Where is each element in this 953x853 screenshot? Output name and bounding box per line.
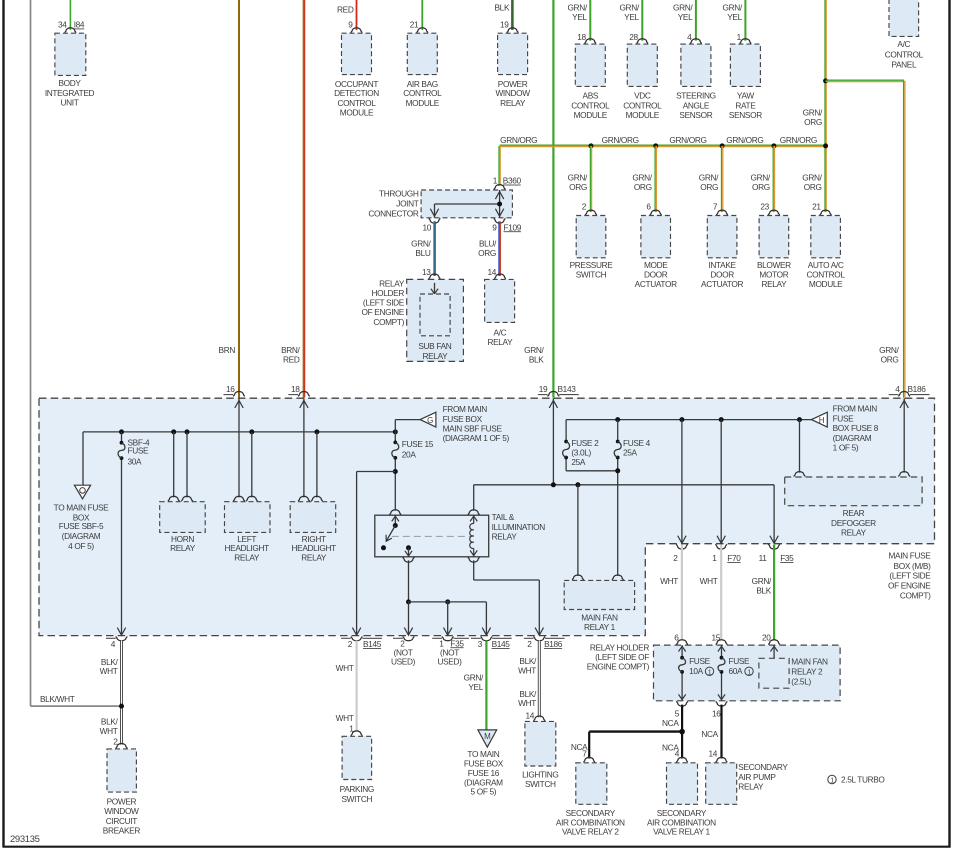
- svg-text:FUSE: FUSE: [128, 446, 150, 456]
- pin 2 breaker: [113, 737, 118, 747]
- svg-text:1: 1: [830, 778, 834, 785]
- svg-text:4: 4: [111, 639, 116, 649]
- junction dot F70-2: [679, 417, 684, 422]
- svg-text:CIRCUIT: CIRCUIT: [106, 816, 137, 826]
- svg-text:15: 15: [711, 632, 720, 642]
- pin 13: [422, 267, 431, 277]
- fuse SBF-4 30A: [118, 441, 125, 460]
- svg-text:USED): USED): [437, 657, 462, 667]
- pin 1 YAW: [737, 32, 742, 42]
- wire label GRN/ORG PRESSURE: [568, 173, 588, 192]
- pin 1 parking: [349, 723, 354, 733]
- sec air valve relay 1 label: [647, 808, 716, 837]
- svg-text:I84: I84: [74, 20, 85, 30]
- svg-text:18: 18: [291, 384, 300, 394]
- svg-text:RELAY: RELAY: [301, 552, 327, 562]
- left headlight relay label: [225, 534, 270, 562]
- connector bump pin 9 F109: [494, 218, 506, 223]
- svg-text:ENGINE COMPT): ENGINE COMPT): [587, 661, 650, 671]
- connector bump breaker: [116, 743, 128, 748]
- main fan relay 1 box: [564, 580, 634, 609]
- connector B186: [908, 384, 927, 394]
- connector bump sec1: [676, 757, 688, 762]
- svg-text:1: 1: [493, 176, 498, 186]
- svg-text:MAIN SBF FUSE: MAIN SBF FUSE: [443, 424, 503, 434]
- svg-text:A/C: A/C: [494, 328, 507, 338]
- wire GRN/ORG B186 vertical: [904, 81, 905, 398]
- connector bump PRESSURE: [585, 210, 597, 215]
- connector bump pin 16: [224, 392, 245, 397]
- wire label NCA b: [662, 742, 679, 752]
- wire drop F35 pin11: [770, 485, 778, 544]
- svg-text:RELAY: RELAY: [500, 98, 526, 108]
- svg-text:6: 6: [646, 201, 651, 211]
- main fan relay 2 box: [759, 658, 789, 688]
- junction dot main fan left: [575, 482, 580, 487]
- wire label BLU/ORG: [478, 239, 497, 258]
- svg-text:BREAKER: BREAKER: [103, 826, 141, 836]
- wire label GRN/ORG upper: [803, 108, 823, 127]
- pin 10: [422, 222, 431, 232]
- svg-text:5: 5: [675, 709, 680, 719]
- junction dot bus 23: [771, 143, 776, 148]
- svg-text:5 OF 5): 5 OF 5): [471, 786, 497, 796]
- lighting switch box: [525, 721, 556, 766]
- svg-text:2: 2: [673, 553, 678, 563]
- svg-text:CONTROL: CONTROL: [337, 98, 376, 108]
- pin 4 B186: [895, 384, 900, 394]
- svg-text:CONTROL: CONTROL: [403, 88, 442, 98]
- svg-text:DOOR: DOOR: [710, 270, 734, 280]
- wire label GRN/YEL VDC: [619, 3, 639, 22]
- connector bump LH left: [233, 496, 245, 501]
- svg-text:YEL: YEL: [572, 12, 587, 22]
- svg-text:ORG: ORG: [700, 182, 718, 192]
- junction dot SBF-4: [119, 429, 124, 434]
- svg-text:NCA: NCA: [701, 729, 718, 739]
- connector bump 1 F35: [432, 637, 469, 641]
- svg-text:LIGHTING: LIGHTING: [522, 769, 558, 779]
- wire BLU/ORG: [499, 221, 500, 276]
- junction dot fuse15 bottom: [393, 469, 398, 474]
- wire label BLK/WHT horizontal: [40, 694, 75, 704]
- svg-text:BLK: BLK: [756, 586, 771, 596]
- svg-text:FUSE BOX: FUSE BOX: [464, 758, 504, 768]
- svg-text:FUSE 15: FUSE 15: [402, 439, 434, 449]
- connector bump notch 2: [676, 544, 688, 549]
- svg-text:(LEFT SIDE: (LEFT SIDE: [363, 298, 405, 308]
- wire defogger left: [799, 420, 801, 473]
- connector F35 bottom: [450, 638, 464, 648]
- rear defogger relay label: [831, 508, 876, 537]
- secondary air combination valve relay 2 box: [576, 763, 607, 805]
- power window circuit breaker box: [107, 749, 136, 792]
- pin 5: [675, 709, 680, 719]
- svg-text:SUB FAN: SUB FAN: [418, 341, 451, 351]
- label not used 1: [391, 647, 416, 666]
- connector bump tail out: [403, 557, 415, 562]
- svg-text:FUSE: FUSE: [833, 413, 855, 423]
- svg-text:MODULE: MODULE: [626, 110, 660, 120]
- wire GRN/ORG drop to B360: [499, 146, 500, 186]
- connector bump BLOWER: [768, 210, 780, 215]
- svg-text:ANGLE: ANGLE: [683, 100, 710, 110]
- pin 2 B186 bottom: [527, 639, 532, 649]
- svg-text:AIR PUMP: AIR PUMP: [738, 772, 776, 782]
- wire GRN/ORG drop BLOWER: [773, 146, 774, 212]
- svg-text:BLU: BLU: [415, 248, 430, 258]
- svg-text:HOLDER: HOLDER: [372, 288, 405, 298]
- wire tail out branch: [404, 560, 490, 635]
- pin 7 NCA: [582, 748, 587, 758]
- svg-text:YEL: YEL: [468, 682, 483, 692]
- svg-text:MODULE: MODULE: [574, 110, 608, 120]
- svg-text:ABS: ABS: [583, 91, 599, 101]
- svg-text:POWER: POWER: [107, 796, 137, 806]
- connector B186 bottom: [544, 639, 563, 649]
- bus labels GRN/ORG: [500, 135, 817, 145]
- connector B360: [503, 176, 522, 186]
- svg-text:DOOR: DOOR: [644, 270, 668, 280]
- wire label WHT 1: [700, 576, 718, 586]
- svg-text:MODULE: MODULE: [809, 279, 843, 289]
- right headlight relay label: [292, 534, 337, 562]
- wire GRN/ORG jog to B186 drop: [826, 80, 905, 81]
- main fan relay 1 label: [581, 613, 618, 633]
- through joint connector box: [421, 190, 512, 218]
- horn relay label: [170, 534, 196, 553]
- through joint internal wire: [430, 190, 504, 218]
- connector bump LH right: [246, 496, 258, 501]
- wire GRN/BLK F35: [773, 545, 775, 641]
- sub fan relay box: [420, 294, 450, 336]
- svg-text:TO MAIN FUSE: TO MAIN FUSE: [54, 503, 109, 513]
- pin 9: [348, 20, 353, 30]
- wire bus to triangle O: [82, 432, 84, 485]
- svg-text:GRN/ORG: GRN/ORG: [500, 135, 537, 145]
- connector B145 (fuse16): [492, 639, 511, 649]
- svg-text:RELAY: RELAY: [738, 782, 764, 792]
- connector bump rh16: [716, 701, 728, 706]
- wire GRN/YEL to YAW: [744, 0, 746, 41]
- connector bump sec2: [583, 757, 595, 762]
- bus wire 1: [83, 431, 395, 433]
- svg-text:MODE: MODE: [644, 260, 668, 270]
- right headlight relay box: [290, 502, 336, 533]
- AUTO A/C CONTROL MODULE box: [811, 216, 841, 258]
- svg-text:USED): USED): [391, 657, 416, 667]
- main fuse box label: [888, 551, 931, 601]
- connector bump tail coil top: [468, 510, 480, 515]
- wire GRN/YEL to VDC: [641, 0, 643, 41]
- air bag control module label: [403, 79, 442, 108]
- connector bump main fan R: [612, 575, 624, 580]
- svg-text:VDC: VDC: [634, 91, 651, 101]
- svg-text:14: 14: [525, 710, 534, 720]
- svg-text:B186: B186: [908, 384, 927, 394]
- label not used 2: [437, 647, 462, 666]
- svg-text:RED: RED: [283, 355, 300, 365]
- tail relay coil: [470, 515, 478, 557]
- svg-text:SWITCH: SWITCH: [576, 270, 607, 280]
- wire label GRN/BLK F35: [752, 576, 772, 595]
- wire fuse4 drop: [617, 420, 619, 576]
- svg-text:CONTROL: CONTROL: [571, 100, 610, 110]
- svg-text:ORG: ORG: [752, 182, 770, 192]
- junction dot F70-1: [719, 417, 724, 422]
- svg-text:RELAY: RELAY: [487, 337, 513, 347]
- connector bump ABS: [584, 39, 596, 44]
- wire NCA branch 7: [589, 732, 682, 759]
- wire label BRN/RED: [281, 345, 300, 364]
- wire GRN/ORG bus: [500, 145, 826, 146]
- wire WHT 1: [720, 545, 722, 641]
- svg-text:3: 3: [478, 639, 483, 649]
- svg-text:CONTROL: CONTROL: [623, 100, 662, 110]
- body integrated unit U-BIU: [55, 33, 86, 75]
- wire WHT 2: [681, 545, 683, 641]
- wire BLK to power window relay: [512, 0, 513, 30]
- connector F70: [727, 553, 741, 563]
- pin 7 INTAKE: [713, 201, 718, 211]
- svg-text:COMPT): COMPT): [373, 317, 404, 327]
- svg-text:MOTOR: MOTOR: [759, 270, 788, 280]
- wire label BLK/WHT lighting 2: [518, 689, 537, 708]
- VDC CONTROL MODULE box: [627, 44, 657, 86]
- wire GRN to body integrated unit: [69, 0, 71, 30]
- fuse FUSE2 25A: [563, 440, 570, 460]
- connector bump pin 13: [429, 274, 441, 279]
- flow arrow G (from main SBF fuse): [420, 412, 436, 427]
- svg-text:21: 21: [812, 201, 821, 211]
- connector bump horn left: [168, 496, 180, 501]
- connector bump 2 B145 bottom: [341, 637, 382, 641]
- tail relay label: [492, 512, 546, 542]
- pin 28 VDC: [629, 32, 638, 42]
- wire to 2 B145: [352, 472, 395, 636]
- svg-text:FUSE: FUSE: [729, 656, 751, 666]
- svg-text:2.5L TURBO: 2.5L TURBO: [841, 775, 885, 785]
- svg-text:FROM MAIN: FROM MAIN: [833, 404, 878, 414]
- svg-text:18: 18: [577, 32, 586, 42]
- sec air valve relay 2 label: [556, 808, 625, 837]
- connector bump pin 10: [429, 218, 441, 223]
- a/c control panel box: [889, 0, 919, 36]
- tail and illumination relay box: [375, 515, 489, 557]
- BLOWER MOTOR RELAY box: [759, 216, 789, 258]
- connector bump rh 6: [676, 640, 688, 645]
- PRESSURE SWITCH label: [570, 260, 614, 280]
- horn relay box: [160, 502, 206, 533]
- wire label GRN/YEL fuse16: [464, 672, 484, 691]
- connector bump pin 19: [507, 28, 519, 33]
- fuse FUSE 10A: [679, 656, 686, 674]
- wire label GRN/ORG BLOWER: [751, 173, 771, 192]
- triangle M label: [464, 749, 504, 796]
- pin 2 B145 bottom: [348, 639, 353, 649]
- svg-text:ACTUATOR: ACTUATOR: [635, 279, 677, 289]
- wire label GRN/ORG INTAKE: [699, 173, 719, 192]
- svg-text:RELAY: RELAY: [379, 278, 405, 288]
- svg-text:23: 23: [760, 201, 769, 211]
- svg-text:WHT: WHT: [336, 713, 354, 723]
- pin 4 STEERING: [687, 32, 692, 42]
- svg-text:RELAY 1: RELAY 1: [584, 622, 616, 632]
- svg-text:CONNECTOR: CONNECTOR: [368, 209, 419, 219]
- svg-text:FUSE 2: FUSE 2: [571, 438, 599, 448]
- wire fuse2 to fuse4 join: [566, 468, 620, 473]
- connector bump RH left: [298, 496, 310, 501]
- connector bump pin 14: [494, 274, 506, 279]
- wire label NCA a: [662, 718, 679, 728]
- connector bump tail coil bottom: [468, 557, 480, 562]
- svg-text:INTEGRATED: INTEGRATED: [45, 88, 95, 98]
- svg-text:4 OF 5): 4 OF 5): [68, 541, 94, 551]
- svg-text:RATE: RATE: [735, 100, 756, 110]
- pin 6 MODE: [646, 201, 651, 211]
- wire label RED: [337, 5, 354, 15]
- fuse 10A label: [689, 656, 714, 676]
- wire GRN/ORG right vertical: [825, 0, 826, 212]
- connector I84: [74, 20, 85, 30]
- BLOWER MOTOR RELAY label: [757, 260, 791, 289]
- svg-text:BLK/WHT: BLK/WHT: [40, 694, 75, 704]
- wire label NCA d: [701, 729, 718, 739]
- svg-text:4: 4: [675, 748, 680, 758]
- svg-text:ACTUATOR: ACTUATOR: [701, 279, 743, 289]
- svg-text:UNIT: UNIT: [61, 98, 79, 108]
- wire GRN/ORG drop PRESSURE: [590, 146, 591, 212]
- wire label GRN/YEL YAW: [723, 3, 743, 22]
- svg-text:A/C: A/C: [897, 39, 910, 49]
- wire B143 drop: [549, 398, 557, 485]
- a/c relay label: [487, 328, 513, 348]
- connector bump B186: [889, 392, 930, 397]
- wire BLK/WHT breaker: [120, 641, 123, 745]
- wire GRN/ORG drop INTAKE: [722, 146, 723, 212]
- fuse FUSE 60A: [718, 656, 725, 674]
- svg-text:(3.0L): (3.0L): [571, 448, 591, 458]
- svg-text:CONTROL: CONTROL: [885, 50, 924, 60]
- MODE DOOR ACTUATOR box: [641, 216, 671, 258]
- wire label NCA c: [571, 742, 588, 752]
- junction dot A: [823, 78, 828, 83]
- svg-text:(DIAGRAM 1 OF 5): (DIAGRAM 1 OF 5): [443, 433, 510, 443]
- parking switch label: [340, 784, 374, 804]
- triangle O label: [54, 503, 109, 551]
- svg-text:(LEFT SIDE: (LEFT SIDE: [889, 571, 931, 581]
- secondary air combination valve relay 1 box: [667, 763, 698, 805]
- junction dot bus 2: [589, 143, 594, 148]
- svg-text:THROUGH: THROUGH: [379, 189, 419, 199]
- svg-text:STEERING: STEERING: [676, 91, 716, 101]
- svg-text:DETECTION: DETECTION: [334, 88, 379, 98]
- pin 6: [674, 632, 679, 642]
- svg-text:YEL: YEL: [624, 12, 639, 22]
- svg-text:FUSE SBF-5: FUSE SBF-5: [59, 521, 104, 531]
- pin 20: [762, 632, 771, 642]
- power window circuit breaker label: [103, 796, 141, 835]
- svg-text:B145: B145: [492, 639, 511, 649]
- svg-text:INTAKE: INTAKE: [708, 260, 736, 270]
- junction dot horn left: [171, 429, 176, 434]
- connector F35 notch: [780, 553, 794, 563]
- tail relay output contact: [405, 545, 412, 557]
- svg-text:FROM MAIN: FROM MAIN: [443, 404, 488, 414]
- INTAKE DOOR ACTUATOR box: [707, 216, 737, 258]
- svg-text:ORG: ORG: [804, 117, 822, 127]
- connector bump parking: [351, 731, 363, 736]
- svg-text:M: M: [484, 732, 491, 741]
- STEERING ANGLE SENSOR label: [676, 91, 716, 120]
- wire GRN/ORG drop MODE: [655, 146, 656, 212]
- svg-text:BRN: BRN: [219, 345, 236, 355]
- wire label WHT parking 2: [336, 713, 354, 723]
- connector bump B360: [494, 185, 506, 190]
- svg-text:WHT: WHT: [100, 666, 118, 676]
- wire GRN/BLK to B143: [552, 0, 554, 398]
- svg-text:CONTROL: CONTROL: [807, 270, 846, 280]
- svg-text:RELAY: RELAY: [422, 351, 448, 361]
- wire drop F70 pin2: [678, 420, 686, 544]
- svg-text:ORG: ORG: [569, 182, 587, 192]
- pin 2 not used: [400, 638, 405, 648]
- svg-text:ORG: ORG: [478, 248, 496, 258]
- connector bump lighting: [533, 716, 545, 721]
- pin 4 NCA: [675, 748, 680, 758]
- wire BRN: [238, 0, 240, 398]
- connector bump notch 11 F35: [768, 544, 780, 549]
- svg-text:FUSE: FUSE: [689, 656, 711, 666]
- svg-text:GRN/ORG: GRN/ORG: [780, 135, 817, 145]
- fuse FUSE15 20A: [392, 441, 399, 460]
- svg-text:7: 7: [582, 748, 587, 758]
- svg-text:FUSE 4: FUSE 4: [623, 438, 651, 448]
- svg-text:1: 1: [708, 669, 712, 676]
- svg-text:14: 14: [708, 748, 717, 758]
- main fuse box M/B outline: [39, 398, 935, 635]
- sub fan relay label: [418, 341, 451, 361]
- rear defogger relay box: [785, 477, 922, 506]
- svg-text:RED: RED: [337, 5, 354, 15]
- air bag control module: [407, 33, 437, 74]
- power window relay K-PW: [498, 33, 528, 74]
- pin 14 NCA: [708, 748, 717, 758]
- svg-text:19: 19: [539, 384, 548, 394]
- svg-text:F35: F35: [780, 553, 794, 563]
- svg-text:B360: B360: [503, 176, 522, 186]
- svg-text:WHT: WHT: [660, 576, 678, 586]
- pin 2 notch: [673, 553, 678, 563]
- svg-text:H: H: [819, 416, 825, 425]
- junction dot bus 21: [823, 143, 828, 148]
- svg-text:RELAY: RELAY: [841, 528, 867, 538]
- svg-text:MAIN FUSE: MAIN FUSE: [888, 551, 931, 561]
- svg-text:WHT: WHT: [518, 666, 536, 676]
- junction dot B143: [551, 482, 556, 487]
- wire GRN/BLU: [434, 221, 435, 276]
- svg-text:RELAY 2: RELAY 2: [791, 667, 823, 677]
- svg-text:RELAY: RELAY: [234, 552, 260, 562]
- AUTO A/C CONTROL MODULE label: [807, 260, 846, 289]
- svg-text:14: 14: [487, 267, 496, 277]
- pin 23 BLOWER: [760, 201, 769, 211]
- fuse 60A label: [729, 656, 754, 676]
- wire LH relay pin: [251, 432, 253, 498]
- svg-text:FUSE 16: FUSE 16: [468, 768, 500, 778]
- wire defogger right B186: [900, 398, 908, 472]
- wire label WHT 2: [660, 576, 678, 586]
